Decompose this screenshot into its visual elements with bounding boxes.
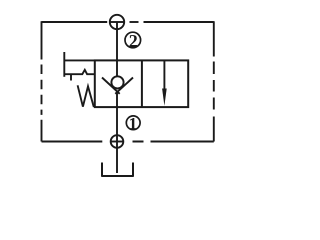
wire: port 2 line from boundary circle down to check valve	[116, 22, 118, 76]
boundary top edge dash right of port circle	[130, 21, 139, 23]
port 2 symbol chord	[110, 21, 125, 23]
port 1 symbol chord	[111, 141, 124, 143]
spring W	[78, 85, 94, 107]
valve body outline	[95, 60, 188, 107]
wire: port 1 line from check valve to tank	[116, 92, 118, 174]
tank symbol	[101, 163, 134, 177]
check valve seat right arm	[115, 78, 133, 94]
check valve ball	[111, 76, 123, 88]
lower line with detent bump	[64, 70, 95, 74]
boundary left edge	[41, 21, 43, 141]
tick below lower line	[70, 74, 72, 81]
boundary right edge	[213, 21, 215, 141]
flow arrow line in right position	[163, 60, 165, 90]
port label 1 circle	[126, 116, 140, 130]
svg-text:1: 1	[129, 114, 138, 133]
port 1 symbol: circle with cross on boundary	[111, 135, 124, 148]
svg-text:2: 2	[129, 31, 138, 51]
spring end bar	[63, 52, 65, 77]
boundary top edge left segment	[42, 21, 108, 23]
boundary top edge right segment	[144, 21, 214, 23]
flow arrow head	[162, 89, 167, 106]
valve body divider	[141, 60, 143, 107]
check valve seat left arm	[102, 78, 120, 94]
port 2 symbol: circle on boundary	[110, 15, 124, 29]
port label 2 circle	[125, 32, 141, 48]
boundary bottom edge	[42, 141, 214, 143]
pilot top line to body	[64, 59, 95, 61]
